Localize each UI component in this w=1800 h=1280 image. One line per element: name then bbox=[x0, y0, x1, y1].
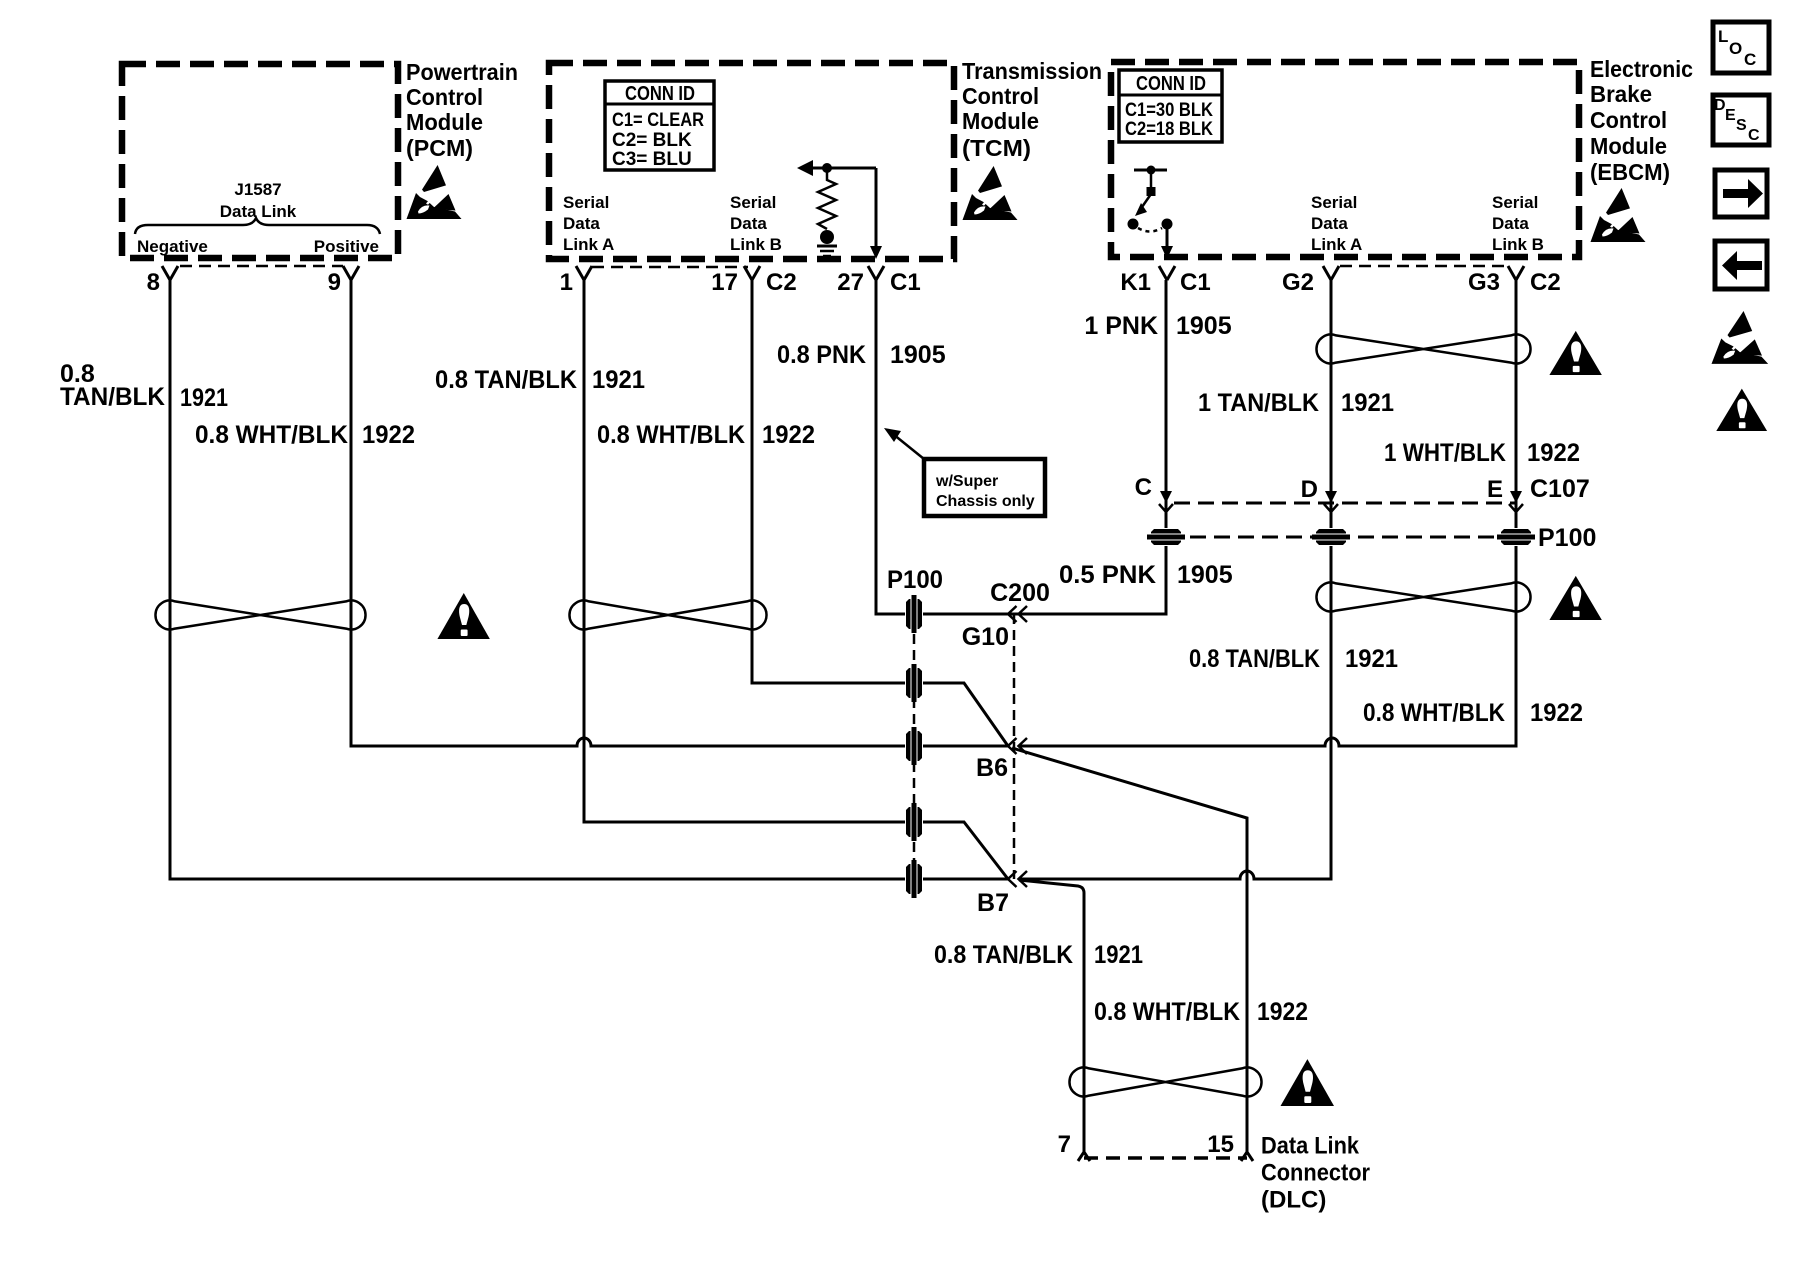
P100 dashed column bbox=[913, 634, 916, 879]
svg-text:0.8 WHT/BLK: 0.8 WHT/BLK bbox=[195, 421, 348, 449]
svg-text:1922: 1922 bbox=[762, 421, 815, 449]
svg-text:Module: Module bbox=[962, 108, 1039, 134]
svg-text:8: 8 bbox=[147, 269, 160, 296]
svg-text:(PCM): (PCM) bbox=[406, 135, 473, 161]
svg-text:E: E bbox=[1725, 107, 1736, 124]
svg-text:1921: 1921 bbox=[1341, 389, 1394, 417]
wire TCM pin1 down, right, diagonal to B7 bbox=[584, 280, 1008, 879]
svg-text:C2: C2 bbox=[1530, 269, 1561, 296]
svg-text:P100: P100 bbox=[1538, 524, 1596, 552]
grommet K1 wire bbox=[1147, 528, 1185, 546]
svg-text:C: C bbox=[1748, 127, 1760, 144]
P100 dashed line right bbox=[1166, 536, 1516, 539]
svg-text:Module: Module bbox=[1590, 133, 1667, 159]
svg-text:1922: 1922 bbox=[1530, 699, 1583, 727]
svg-text:Positive: Positive bbox=[314, 237, 379, 256]
svg-text:Transmission: Transmission bbox=[962, 58, 1102, 84]
svg-text:1922: 1922 bbox=[1257, 998, 1308, 1026]
grommet P100 row B6 bbox=[905, 727, 923, 765]
PCM connector dashed line bbox=[180, 265, 343, 268]
svg-text:C2: C2 bbox=[766, 269, 797, 296]
svg-text:1921: 1921 bbox=[1094, 941, 1143, 969]
svg-text:G2: G2 bbox=[1282, 269, 1314, 296]
callout arrow bbox=[893, 434, 924, 459]
svg-text:27: 27 bbox=[837, 269, 864, 296]
svg-text:1 WHT/BLK: 1 WHT/BLK bbox=[1384, 439, 1506, 467]
svg-text:Chassis only: Chassis only bbox=[936, 493, 1035, 510]
svg-text:0.8 TAN/BLK: 0.8 TAN/BLK bbox=[1189, 645, 1320, 673]
svg-text:0.5 PNK: 0.5 PNK bbox=[1059, 561, 1156, 589]
svg-text:1921: 1921 bbox=[180, 384, 228, 412]
grommet P100 row B7 bbox=[905, 860, 923, 898]
wire pin27 inside box with down arrow bbox=[875, 168, 878, 247]
EBCM connector dashed line bbox=[1340, 265, 1508, 268]
left arrow button bbox=[1715, 241, 1767, 289]
svg-text:C200: C200 bbox=[990, 579, 1050, 607]
grommet G3 wire bbox=[1497, 528, 1535, 546]
svg-text:Serial: Serial bbox=[563, 193, 609, 212]
svg-text:0.8 TAN/BLK: 0.8 TAN/BLK bbox=[934, 941, 1073, 969]
svg-text:Negative: Negative bbox=[137, 237, 208, 256]
svg-text:C1=30 BLK: C1=30 BLK bbox=[1125, 100, 1213, 121]
svg-text:0.8 TAN/BLK: 0.8 TAN/BLK bbox=[435, 366, 577, 394]
resistor with arrow and ground inside TCM bbox=[797, 160, 876, 256]
warning triangle DLC bbox=[1281, 1059, 1335, 1106]
svg-text:CONN ID: CONN ID bbox=[625, 83, 695, 105]
svg-text:C107: C107 bbox=[1530, 475, 1590, 503]
twisted pair DLC bbox=[1069, 1068, 1261, 1097]
svg-text:Control: Control bbox=[962, 83, 1039, 109]
svg-text:TAN/BLK: TAN/BLK bbox=[60, 383, 165, 411]
DESC button bbox=[1713, 95, 1769, 145]
svg-text:(TCM): (TCM) bbox=[962, 135, 1031, 161]
warning triangle sidebar bbox=[1716, 389, 1767, 431]
svg-text:C1: C1 bbox=[890, 269, 921, 296]
arrow G10 bbox=[1008, 606, 1027, 622]
wire EBCM G2 down to B7 row right side with hop at DLC15 bbox=[1019, 280, 1331, 879]
svg-text:Data Link: Data Link bbox=[220, 202, 297, 221]
svg-text:0.8 WHT/BLK: 0.8 WHT/BLK bbox=[1094, 998, 1240, 1026]
svg-text:(DLC): (DLC) bbox=[1261, 1187, 1326, 1214]
module box PCM bbox=[122, 64, 398, 258]
ESD symbol EBCM bbox=[1591, 188, 1646, 242]
svg-text:Brake: Brake bbox=[1590, 81, 1652, 107]
twisted pair TCM bbox=[569, 601, 766, 630]
ESD symbol TCM bbox=[963, 166, 1018, 220]
svg-text:17: 17 bbox=[711, 269, 738, 296]
C107 connector dashed line bbox=[1174, 502, 1516, 505]
svg-text:1 TAN/BLK: 1 TAN/BLK bbox=[1198, 389, 1319, 417]
svg-text:Electronic: Electronic bbox=[1590, 56, 1693, 82]
ESD symbol PCM bbox=[407, 165, 462, 219]
svg-text:0.8 WHT/BLK: 0.8 WHT/BLK bbox=[597, 421, 745, 449]
wire EBCM G3 down to B6 row right side with hop at G2 bbox=[1019, 280, 1516, 746]
svg-text:1922: 1922 bbox=[1527, 439, 1580, 467]
wire B6 to DLC pin15 diagonal bbox=[1012, 748, 1247, 1152]
w/Super Chassis only box bbox=[924, 459, 1045, 516]
svg-text:w/Super: w/Super bbox=[935, 473, 998, 490]
svg-text:O: O bbox=[1729, 39, 1742, 58]
svg-text:1 PNK: 1 PNK bbox=[1084, 312, 1158, 340]
svg-text:Data Link: Data Link bbox=[1261, 1133, 1360, 1160]
grommet G2 wire bbox=[1312, 528, 1350, 546]
svg-text:Powertrain: Powertrain bbox=[406, 59, 518, 85]
svg-text:C: C bbox=[1744, 50, 1756, 69]
svg-text:CONN ID: CONN ID bbox=[1136, 73, 1206, 95]
switch symbol inside EBCM bbox=[1128, 166, 1174, 260]
svg-text:B6: B6 bbox=[976, 754, 1008, 782]
svg-text:J1587: J1587 bbox=[234, 180, 281, 199]
svg-text:C: C bbox=[1135, 474, 1152, 501]
right arrow button bbox=[1715, 170, 1767, 217]
wire TCM pin17 down, right, diagonal to B6 bbox=[752, 280, 1008, 746]
svg-text:Link A: Link A bbox=[1311, 235, 1362, 254]
wire PCM pin8 to B7 row bbox=[170, 280, 1008, 879]
DLC connector dashed line bbox=[1084, 1156, 1247, 1160]
svg-text:Serial: Serial bbox=[1492, 193, 1538, 212]
warning triangle EBCM lower bbox=[1549, 576, 1601, 620]
svg-text:Module: Module bbox=[406, 109, 483, 135]
svg-text:K1: K1 bbox=[1120, 269, 1151, 296]
svg-text:Control: Control bbox=[1590, 107, 1667, 133]
wire TCM pin27 down to 0.5PNK row to EBCM K1 bbox=[876, 280, 1166, 614]
TCM connector dashed line bbox=[592, 266, 748, 269]
svg-text:9: 9 bbox=[328, 269, 341, 296]
svg-text:Data: Data bbox=[730, 214, 767, 233]
svg-text:1921: 1921 bbox=[592, 366, 645, 394]
svg-text:1905: 1905 bbox=[1177, 561, 1233, 589]
arrow B7 bbox=[1008, 871, 1027, 887]
svg-text:Data: Data bbox=[1311, 214, 1348, 233]
svg-text:1921: 1921 bbox=[1345, 645, 1398, 673]
svg-text:C1: C1 bbox=[1180, 269, 1211, 296]
wire PCM pin9 to B6 row with hop over TCM1 wire bbox=[351, 280, 1008, 746]
svg-text:Link B: Link B bbox=[730, 235, 782, 254]
arrow B6 bbox=[1008, 738, 1027, 754]
svg-text:Connector: Connector bbox=[1261, 1160, 1370, 1187]
svg-text:L: L bbox=[1718, 27, 1728, 46]
grommet P100 row TCM17 bbox=[905, 664, 923, 702]
svg-text:1905: 1905 bbox=[890, 341, 946, 369]
svg-text:Link A: Link A bbox=[563, 235, 614, 254]
svg-text:C1= CLEAR: C1= CLEAR bbox=[612, 110, 704, 131]
svg-text:1: 1 bbox=[560, 269, 573, 296]
svg-text:C2=18 BLK: C2=18 BLK bbox=[1125, 119, 1213, 140]
C200 dashed column bbox=[1013, 614, 1016, 879]
ESD symbol sidebar bbox=[1712, 311, 1769, 364]
CONN ID table EBCM bbox=[1119, 70, 1222, 142]
svg-text:1922: 1922 bbox=[362, 421, 415, 449]
svg-text:7: 7 bbox=[1058, 1131, 1071, 1158]
grommet P100 row TCM1 bbox=[905, 803, 923, 841]
svg-text:(EBCM): (EBCM) bbox=[1590, 159, 1670, 185]
twisted pair EBCM lower bbox=[1316, 583, 1530, 612]
svg-text:15: 15 bbox=[1207, 1131, 1234, 1158]
svg-text:D: D bbox=[1301, 476, 1318, 503]
module box EBCM bbox=[1111, 62, 1579, 257]
svg-text:Link B: Link B bbox=[1492, 235, 1544, 254]
warning triangle left bbox=[437, 593, 489, 639]
svg-text:Data: Data bbox=[563, 214, 600, 233]
svg-text:D: D bbox=[1714, 97, 1726, 114]
svg-text:S: S bbox=[1736, 117, 1747, 134]
LOC button bbox=[1713, 22, 1769, 73]
module box TCM bbox=[549, 63, 954, 259]
svg-text:0.8 WHT/BLK: 0.8 WHT/BLK bbox=[1363, 699, 1505, 727]
svg-text:0.8 PNK: 0.8 PNK bbox=[777, 341, 866, 369]
svg-text:P100: P100 bbox=[887, 566, 943, 594]
twisted pair EBCM upper bbox=[1316, 334, 1530, 363]
svg-text:Data: Data bbox=[1492, 214, 1529, 233]
svg-text:Control: Control bbox=[406, 84, 483, 110]
wire B7 to DLC pin7 diagonal bbox=[1019, 880, 1084, 1152]
svg-text:C3= BLU: C3= BLU bbox=[612, 149, 692, 170]
brace bbox=[135, 218, 380, 234]
svg-text:E: E bbox=[1487, 476, 1503, 503]
svg-text:Serial: Serial bbox=[1311, 193, 1357, 212]
svg-text:G3: G3 bbox=[1468, 269, 1500, 296]
CONN ID table TCM bbox=[605, 81, 714, 170]
svg-text:G10: G10 bbox=[962, 623, 1009, 651]
grommet P100 row 0.5PNK bbox=[905, 595, 923, 633]
svg-text:C2= BLK: C2= BLK bbox=[612, 130, 692, 151]
svg-text:B7: B7 bbox=[977, 889, 1009, 917]
twisted pair PCM bbox=[155, 601, 365, 630]
svg-text:1905: 1905 bbox=[1176, 312, 1232, 340]
svg-text:Serial: Serial bbox=[730, 193, 776, 212]
warning triangle EBCM upper bbox=[1549, 331, 1601, 375]
